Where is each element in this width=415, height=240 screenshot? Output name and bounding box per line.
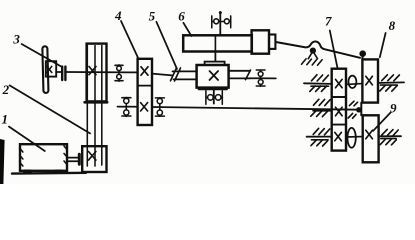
bearing on vertical shaft	[212, 16, 231, 28]
bearing below box 5	[206, 91, 223, 104]
handwheel 3	[42, 46, 48, 93]
lever pivot	[310, 48, 316, 54]
X gear 7 top	[336, 79, 343, 87]
leader 6	[183, 23, 191, 36]
worm shaft right end	[250, 77, 276, 79]
svg-text:4: 4	[114, 8, 122, 23]
worm right	[229, 71, 251, 79]
svg-text:5: 5	[149, 9, 156, 24]
divider 7 upper	[332, 96, 346, 98]
divider 7 lower	[332, 124, 346, 126]
belt lines	[87, 45, 102, 166]
support shaft III left	[310, 75, 329, 92]
handwheel hub	[46, 61, 56, 76]
motor base line	[12, 172, 86, 175]
shaft III right stub	[378, 81, 404, 84]
worm gear box 5	[197, 65, 229, 88]
rack box 9	[363, 115, 379, 162]
coupling at handwheel	[61, 67, 63, 80]
shaft IV short link	[346, 136, 363, 138]
motor hatch ticks	[20, 146, 68, 166]
leader 7	[330, 31, 338, 68]
bearing shaft II left	[122, 97, 131, 116]
shaft II left stub	[118, 106, 138, 108]
vertical shaft below cylinder	[214, 52, 216, 62]
X gear 4 lower	[141, 103, 148, 111]
motor feet	[23, 170, 33, 174]
lever from cylinder	[276, 41, 360, 57]
cylinder 6 body	[183, 35, 252, 51]
vertical stub below box 5	[213, 90, 215, 103]
leader 3	[22, 44, 62, 67]
gear block 7	[332, 69, 346, 151]
cylinder end cap	[269, 35, 275, 49]
shaft III left stub	[304, 82, 332, 85]
X gear 4 upper	[141, 67, 148, 75]
big pulley thick bottom	[85, 101, 108, 104]
shaft II long	[152, 107, 360, 110]
link 8 to 9	[360, 103, 362, 116]
X in box 8	[366, 76, 373, 85]
leader 4	[121, 21, 138, 59]
scan edge artifact left	[0, 139, 5, 184]
bearing on shaft I	[115, 65, 123, 81]
link rod to rack 8	[362, 55, 364, 60]
vertical shaft through cylinder	[214, 35, 216, 51]
X gear 7 mid	[336, 107, 343, 116]
big pulley 2	[87, 44, 107, 102]
shaft IV right stub	[379, 135, 401, 137]
vertical shaft above cylinder	[219, 12, 221, 35]
leader 1	[9, 127, 45, 151]
shaft I to worm	[152, 74, 172, 76]
X big pulley	[89, 67, 96, 75]
svg-text:6: 6	[178, 9, 185, 24]
bearing shaft II right	[155, 98, 164, 117]
X hub	[47, 66, 52, 72]
gear box 4	[138, 59, 152, 125]
shaft IV left stub	[307, 136, 332, 138]
svg-text:1: 1	[2, 112, 9, 127]
divider gear box 4	[138, 85, 152, 87]
coupling motor to pulley	[68, 158, 79, 162]
svg-text:3: 3	[12, 31, 20, 46]
leader 2	[10, 85, 90, 133]
support shaft III right	[380, 75, 400, 91]
rack box 8	[362, 59, 378, 102]
shaft I coupling to gearbox	[67, 71, 138, 73]
svg-text:7: 7	[325, 13, 332, 28]
svg-text:9: 9	[390, 100, 397, 115]
X worm wheel 5	[210, 71, 219, 80]
cylinder head box	[252, 30, 269, 53]
leader 9	[373, 113, 390, 131]
support shaft II left of block 7	[311, 99, 330, 116]
X small pulley	[89, 152, 96, 161]
shaft II end blob	[356, 107, 361, 112]
X in box 9	[366, 130, 373, 139]
X gear 7 bottom	[335, 132, 342, 140]
support shaft IV right	[380, 129, 398, 144]
svg-text:8: 8	[389, 18, 396, 33]
lever joint blob	[359, 50, 366, 57]
leader 5	[156, 22, 177, 69]
support shaft II right of block 7	[348, 101, 357, 118]
svg-text:2: 2	[2, 82, 10, 97]
bearing worm shaft	[256, 70, 265, 86]
shaft I hub-coupling	[56, 71, 61, 73]
gear ellipse between 7 and 8	[348, 76, 356, 88]
small pulley 2	[82, 146, 106, 172]
box 5 top cap	[205, 62, 225, 65]
motor 1 body	[20, 144, 67, 171]
support shaft IV left	[311, 128, 330, 146]
box 5 bottom cap	[199, 88, 227, 91]
shaft III through ellipse	[346, 83, 362, 86]
worm left	[173, 71, 197, 79]
leader 8	[380, 33, 386, 57]
gear ellipse between 7 and 9	[347, 128, 355, 148]
